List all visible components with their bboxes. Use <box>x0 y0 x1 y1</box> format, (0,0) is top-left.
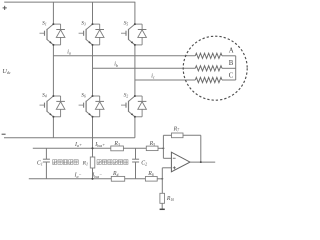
svg-text:R7: R7 <box>173 126 181 132</box>
motor dashed circle <box>183 36 247 100</box>
svg-text:ib: ib <box>114 62 118 68</box>
diode D6 freewheel, anti-parallel with S6 <box>92 95 105 118</box>
transistor S6 (IGBT) <box>79 92 93 117</box>
svg-text:A: A <box>229 48 234 55</box>
transistor S1 (IGBT) <box>40 20 54 45</box>
negative DC rail <box>4 137 135 139</box>
positive DC rail <box>4 1 135 3</box>
wire R7 to output node <box>183 134 201 136</box>
wire leg2 top <box>92 2 94 24</box>
diode D5 freewheel, anti-parallel with S5 <box>134 23 147 46</box>
wire bottom sense line mid <box>125 178 146 180</box>
wire leg3 bottom <box>134 117 136 138</box>
wire into inverting input <box>162 148 164 158</box>
node noninverting junction <box>161 178 163 180</box>
wire leg2 mid <box>92 45 94 96</box>
node plus terminal <box>3 7 7 9</box>
svg-text:ia: ia <box>67 49 71 55</box>
svg-text:C1: C1 <box>37 160 43 166</box>
capacitor C2 <box>135 148 137 159</box>
wire leg3 mid <box>134 45 136 96</box>
transistor S3 (IGBT) <box>79 20 93 45</box>
wire down to R8 <box>161 179 163 194</box>
wire phase A <box>53 55 195 57</box>
wire leg2 bottom <box>92 117 94 138</box>
text bus current analysis <box>97 160 101 165</box>
winding B <box>195 66 222 71</box>
wire winding A to star <box>222 55 236 57</box>
wire leg1 mid <box>52 45 54 96</box>
diode D3 freewheel, anti-parallel with S3 <box>92 23 105 46</box>
wire top sense line right <box>158 147 163 149</box>
transistor S5 (IGBT) <box>121 20 135 45</box>
resistor R10 to ground <box>160 193 165 203</box>
wire top sense line left <box>33 147 111 149</box>
wire into noninverting input <box>161 168 163 179</box>
text phase current analysis <box>53 160 57 165</box>
wire leg3 top <box>134 2 136 24</box>
wire bottom sense line left <box>29 178 111 180</box>
wire feedback up <box>162 135 164 148</box>
wire phase B <box>93 67 196 69</box>
wire top sense line mid <box>123 147 146 149</box>
wire bottom sense line right <box>157 178 162 180</box>
svg-text:C: C <box>229 72 234 79</box>
svg-text:ic: ic <box>151 73 155 79</box>
wire star point <box>235 56 237 80</box>
wire feedback down to output <box>200 135 202 162</box>
transistor S4 (IGBT) <box>40 92 54 117</box>
ground <box>160 208 165 210</box>
wire phase C <box>135 79 195 81</box>
op-amp U1 <box>171 152 190 172</box>
wire winding C to star <box>222 79 236 81</box>
node minus terminal <box>2 133 6 135</box>
diode D2 freewheel, anti-parallel with S2 <box>134 95 147 118</box>
svg-text:B: B <box>229 60 234 67</box>
wire leg1 bottom <box>52 117 54 138</box>
node feedback tap <box>200 161 202 163</box>
winding C <box>195 77 222 82</box>
diode D4 freewheel, anti-parallel with S4 <box>52 95 65 118</box>
node inverting input junction <box>162 147 164 149</box>
winding A <box>195 53 222 58</box>
diode D1 freewheel, anti-parallel with S1 <box>52 23 65 46</box>
wire feedback to R7 <box>163 134 171 136</box>
wire winding B to star <box>222 67 236 69</box>
svg-text:C2: C2 <box>141 160 147 166</box>
resistor R1 shunt <box>92 138 94 157</box>
wire leg1 top <box>52 2 54 24</box>
wire op-amp output <box>190 161 215 163</box>
svg-text:R1: R1 <box>82 160 88 166</box>
transistor S2 (IGBT) <box>121 92 135 117</box>
